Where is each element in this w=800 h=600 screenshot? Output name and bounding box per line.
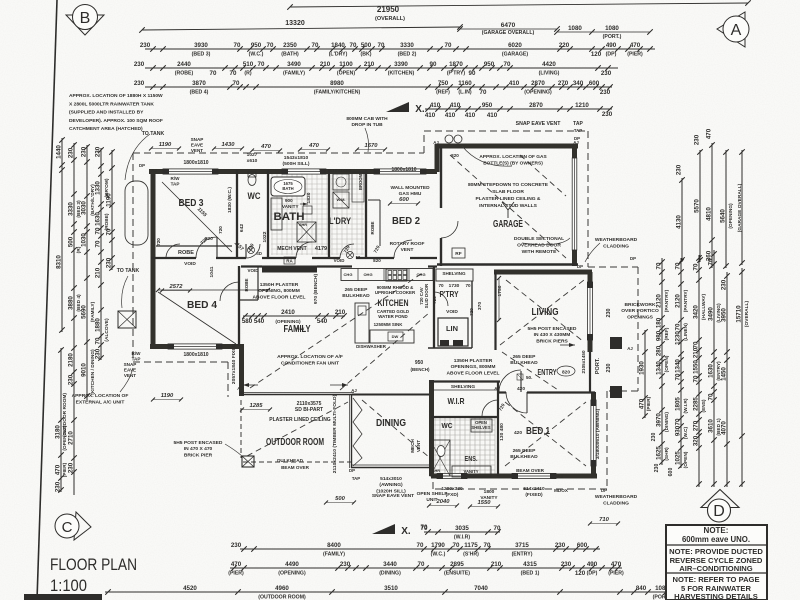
- svg-text:CLADDING: CLADDING: [603, 243, 629, 249]
- svg-text:265 DEEP: 265 DEEP: [513, 354, 537, 360]
- svg-text:INTERNAL STUD WALLS: INTERNAL STUD WALLS: [479, 203, 538, 209]
- door arc pantry: [434, 292, 448, 306]
- svg-text:6020: 6020: [508, 42, 522, 49]
- garage label leader: [502, 202, 514, 218]
- svg-text:410: 410: [445, 112, 456, 119]
- svg-text:13320: 13320: [285, 20, 305, 27]
- ldry trough and wm: [333, 174, 349, 190]
- svg-text:X.: X.: [401, 526, 411, 537]
- svg-text:180: 180: [656, 317, 663, 328]
- svg-text:2105x1450: 2105x1450: [581, 350, 586, 373]
- svg-text:2440: 2440: [177, 61, 191, 68]
- svg-text:4960: 4960: [275, 585, 289, 592]
- svg-text:ROBE: ROBE: [370, 221, 375, 234]
- svg-text:500: 500: [361, 42, 372, 49]
- svg-text:(FXD): (FXD): [446, 492, 459, 498]
- svg-text:230: 230: [140, 42, 151, 49]
- svg-text:CATCHMENT AREA (HATCHED): CATCHMENT AREA (HATCHED): [69, 126, 143, 132]
- svg-text:SHR: SHR: [432, 469, 440, 473]
- svg-text:930: 930: [675, 425, 682, 436]
- svg-text:1790: 1790: [431, 542, 445, 549]
- svg-text:21950: 21950: [377, 5, 400, 14]
- svg-text:1800x1810: 1800x1810: [391, 167, 416, 173]
- svg-text:X.: X.: [415, 104, 425, 115]
- svg-text:720: 720: [432, 296, 437, 304]
- right dim column 5: [726, 272, 728, 487]
- svg-text:AJ: AJ: [431, 474, 437, 479]
- leader curves: [125, 134, 150, 180]
- svg-text:(GARAGE): (GARAGE): [502, 52, 528, 58]
- svg-text:820: 820: [373, 258, 381, 263]
- svg-text:SNAP: SNAP: [191, 137, 204, 142]
- svg-text:70: 70: [484, 542, 491, 549]
- svg-text:WC: WC: [248, 191, 261, 201]
- svg-text:3420: 3420: [693, 305, 700, 319]
- svg-text:70: 70: [417, 542, 424, 549]
- rainwater tank outline: [125, 181, 148, 245]
- svg-text:MECH: MECH: [410, 439, 415, 453]
- svg-text:1027: 1027: [247, 152, 258, 158]
- svg-text:4315: 4315: [523, 561, 537, 568]
- svg-text:70: 70: [438, 283, 444, 288]
- window bed2 1800x1810: [374, 169, 426, 174]
- svg-text:(ENTRY): (ENTRY): [512, 552, 533, 558]
- svg-text:50: 50: [356, 255, 361, 260]
- svg-text:(FAMILY): (FAMILY): [283, 71, 305, 77]
- zigzag timber multifold: [353, 398, 362, 466]
- svg-text:C: C: [62, 519, 73, 536]
- roof line dining: [362, 400, 430, 458]
- svg-text:W.M.: W.M.: [336, 197, 345, 202]
- svg-text:SD BI-PART: SD BI-PART: [295, 407, 323, 413]
- bed3 diagonal: [162, 182, 232, 252]
- svg-text:BATH: BATH: [282, 186, 293, 191]
- svg-text:210: 210: [364, 61, 375, 68]
- svg-text:130 480: 130 480: [499, 423, 505, 441]
- svg-text:230: 230: [55, 481, 62, 492]
- svg-text:3715: 3715: [515, 542, 529, 549]
- wir north wall: [429, 380, 500, 382]
- svg-text:600: 600: [668, 468, 674, 477]
- svg-text:3440: 3440: [383, 561, 397, 568]
- svg-text:(R): (R): [244, 71, 251, 77]
- ldry bench: [352, 172, 364, 202]
- wir/bed1 divider: [497, 381, 499, 476]
- svg-text:4520: 4520: [183, 585, 197, 592]
- svg-text:900: 900: [285, 198, 293, 203]
- door arc front entry: [499, 370, 521, 392]
- bed3 robe wall: [156, 245, 232, 247]
- right dim column 1: [661, 258, 663, 465]
- svg-text:70: 70: [234, 42, 241, 49]
- svg-text:SHELVING: SHELVING: [442, 271, 466, 276]
- svg-text:70: 70: [494, 525, 501, 532]
- kitchen appliance row: [341, 269, 433, 281]
- svg-text:230: 230: [602, 111, 613, 118]
- svg-text:(DP): (DP): [587, 571, 598, 577]
- svg-text:(ENSUITE): (ENSUITE): [444, 571, 470, 577]
- svg-text:1:100: 1:100: [50, 577, 87, 595]
- svg-text:70: 70: [465, 283, 471, 288]
- bath tub: [271, 177, 305, 196]
- svg-text:BRICK PIERS: BRICK PIERS: [536, 338, 568, 344]
- garage south wall: [437, 263, 578, 265]
- svg-text:9010: 9010: [81, 363, 88, 377]
- svg-text:3330: 3330: [68, 202, 75, 216]
- svg-text:320: 320: [693, 435, 700, 446]
- svg-text:(GARAGE OVERALL): (GARAGE OVERALL): [482, 30, 535, 36]
- svg-text:(PORT.): (PORT.): [603, 34, 622, 40]
- svg-text:70: 70: [693, 341, 700, 348]
- right dim upper col 5570: [699, 150, 701, 262]
- svg-text:TAP: TAP: [574, 128, 582, 133]
- svg-text:R/W: R/W: [171, 176, 181, 181]
- svg-text:SHELVES: SHELVES: [471, 425, 490, 430]
- door arc bed3: [196, 237, 217, 258]
- svg-text:UPRIGHT COOKER: UPRIGHT COOKER: [375, 290, 416, 295]
- svg-text:510: 510: [243, 61, 254, 68]
- garage west wall upper: [440, 146, 442, 208]
- svg-text:(W.C.): (W.C.): [431, 552, 446, 558]
- svg-text:642: 642: [239, 224, 245, 232]
- svg-text:DEVELOPER). APPROX. 100 SQM RO: DEVELOPER). APPROX. 100 SQM ROOF: [69, 118, 163, 124]
- svg-text:VOID: VOID: [184, 261, 196, 267]
- svg-text:BRICK PIER: BRICK PIER: [184, 452, 213, 458]
- svg-text:70: 70: [675, 323, 682, 330]
- svg-text:1750: 1750: [497, 285, 503, 296]
- right dim column overall 15710: [741, 268, 743, 487]
- svg-text:CONDITIONER FAN UNIT: CONDITIONER FAN UNIT: [281, 360, 339, 366]
- svg-text:820: 820: [451, 153, 459, 158]
- svg-text:720: 720: [218, 226, 223, 234]
- svg-text:230: 230: [600, 89, 611, 96]
- section marker X top: [386, 102, 409, 112]
- svg-text:500: 500: [68, 236, 75, 247]
- svg-text:710: 710: [599, 517, 609, 523]
- window bed4 1800x1810: [168, 344, 222, 349]
- svg-text:70: 70: [95, 240, 102, 247]
- svg-text:HARVESTING DETAILS: HARVESTING DETAILS: [674, 592, 758, 600]
- svg-text:(W.C.): (W.C.): [249, 52, 264, 58]
- section marker X bottom: [372, 524, 395, 534]
- svg-text:VOID: VOID: [247, 268, 259, 273]
- svg-text:DP: DP: [601, 488, 607, 493]
- svg-text:420: 420: [514, 430, 522, 436]
- svg-text:SLAB FLOOR: SLAB FLOOR: [492, 189, 524, 195]
- lin closet: [438, 318, 468, 346]
- svg-text:(L.IN): (L.IN): [458, 90, 472, 96]
- svg-text:2350: 2350: [283, 42, 297, 49]
- svg-text:1730: 1730: [449, 283, 460, 289]
- svg-text:4810: 4810: [706, 207, 713, 221]
- hall bulkhead black bar: [262, 266, 317, 273]
- svg-text:230: 230: [106, 257, 113, 268]
- roof line living: [500, 280, 584, 345]
- svg-text:OHG: OHG: [416, 272, 425, 277]
- ens fixtures: [452, 466, 491, 477]
- svg-text:3030: 3030: [81, 201, 88, 215]
- svg-text:3930: 3930: [194, 42, 208, 49]
- right dim upper col 4130: [681, 178, 683, 262]
- svg-text:WITH REMOTE: WITH REMOTE: [522, 249, 558, 255]
- family/bed4 divider wall: [238, 266, 240, 346]
- svg-text:ROBE: ROBE: [244, 278, 249, 291]
- svg-text:BATH: BATH: [274, 211, 305, 223]
- right dim upper col 4810: [711, 143, 713, 268]
- svg-text:1830 (W.C.): 1830 (W.C.): [227, 187, 233, 213]
- ldry tiles: [331, 172, 364, 255]
- svg-text:DOUBLE SECTIONAL: DOUBLE SECTIONAL: [514, 236, 564, 242]
- svg-text:(BED 4): (BED 4): [190, 90, 209, 96]
- left dim column 5: [111, 150, 113, 270]
- dining north bulkhead wall: [352, 394, 431, 396]
- svg-text:800MM CAB WITH: 800MM CAB WITH: [346, 116, 388, 122]
- exterior wall top-west: [149, 169, 437, 174]
- svg-text:(W.I.R): (W.I.R): [454, 535, 470, 541]
- svg-text:230: 230: [81, 146, 88, 157]
- svg-text:70: 70: [656, 262, 663, 269]
- svg-text:470: 470: [639, 398, 646, 409]
- family south opening wall: [239, 392, 243, 394]
- dining south awning window: [351, 467, 434, 469]
- svg-text:500: 500: [335, 496, 345, 502]
- svg-text:70: 70: [350, 42, 357, 49]
- living west wall: [494, 272, 496, 350]
- svg-text:(500H SILL): (500H SILL): [283, 161, 310, 167]
- kitchen tall bench: [355, 303, 369, 343]
- svg-text:470: 470: [611, 561, 622, 568]
- svg-text:MDOX: MDOX: [554, 488, 569, 493]
- interior wall ldry|bed2: [365, 170, 367, 258]
- svg-text:1350H PLASTER: 1350H PLASTER: [454, 358, 493, 364]
- svg-text:(W.I.R): (W.I.R): [683, 398, 689, 413]
- svg-text:70: 70: [708, 393, 715, 400]
- dim row 21950 overall: [290, 3, 748, 7]
- svg-text:(PIER): (PIER): [228, 571, 244, 577]
- svg-text:70: 70: [230, 70, 237, 77]
- svg-text:OPENINGS, 800MM: OPENINGS, 800MM: [451, 364, 496, 370]
- svg-text:BOTTLE(S) (BY OWNERS): BOTTLE(S) (BY OWNERS): [483, 160, 543, 166]
- svg-text:70: 70: [312, 42, 319, 49]
- dim row family bottom: [240, 548, 600, 550]
- bed1/entry north wall: [497, 391, 506, 393]
- ens/wc tiles: [433, 418, 495, 474]
- svg-text:8310: 8310: [56, 255, 63, 269]
- svg-text:950: 950: [415, 360, 424, 366]
- svg-text:(BENCH): (BENCH): [411, 367, 430, 372]
- svg-text:120: 120: [575, 570, 586, 577]
- svg-text:(P'TRY): (P'TRY): [447, 71, 466, 77]
- svg-text:540: 540: [317, 318, 328, 325]
- sd symbol hall: [248, 247, 255, 254]
- svg-text:AIR–CONDITIONING: AIR–CONDITIONING: [679, 564, 753, 573]
- notes box: [666, 525, 767, 600]
- open shelves box: [471, 419, 492, 432]
- svg-text:1450: 1450: [721, 367, 728, 381]
- right dim column 3: [698, 255, 700, 487]
- svg-text:AJ: AJ: [433, 140, 439, 145]
- svg-text:TAP: TAP: [171, 182, 180, 187]
- svg-text:5H5 POST ENCASED: 5H5 POST ENCASED: [174, 440, 223, 446]
- interior wall bath|ldry: [328, 170, 330, 258]
- svg-text:340: 340: [573, 80, 584, 87]
- svg-text:1670: 1670: [365, 143, 379, 149]
- left dim column 4: [100, 148, 102, 360]
- svg-text:70: 70: [210, 70, 217, 77]
- svg-text:4490: 4490: [285, 561, 299, 568]
- svg-text:BULKHEAD: BULKHEAD: [510, 360, 538, 366]
- svg-text:270: 270: [693, 420, 700, 431]
- svg-text:1800: 1800: [484, 489, 495, 495]
- door arc ldry: [340, 244, 354, 258]
- svg-text:WC: WC: [442, 421, 454, 430]
- svg-text:OPEN SHELF: OPEN SHELF: [417, 491, 448, 497]
- svg-text:600: 600: [399, 197, 409, 203]
- garage north wall: [437, 144, 578, 149]
- ens/bed1 south wall: [431, 474, 597, 479]
- svg-text:(OPENING): (OPENING): [728, 203, 734, 229]
- marker D (bottom-right): [701, 490, 739, 523]
- svg-text:(BATH): (BATH): [281, 52, 299, 58]
- svg-text:514x3010: 514x3010: [380, 476, 402, 482]
- svg-text:NOTE: PROVIDE DUCTED: NOTE: PROVIDE DUCTED: [669, 547, 763, 556]
- svg-text:TAP: TAP: [132, 357, 141, 362]
- svg-text:ENTRY: ENTRY: [538, 367, 557, 377]
- svg-text:70: 70: [675, 262, 682, 269]
- svg-text:DINING: DINING: [376, 417, 406, 429]
- interior wall bed3|wc: [236, 170, 238, 258]
- svg-text:TO TANK: TO TANK: [142, 131, 165, 137]
- svg-text:PLASTER LINED CEILING &: PLASTER LINED CEILING &: [476, 196, 541, 202]
- svg-text:410: 410: [465, 112, 476, 119]
- svg-text:370: 370: [477, 302, 483, 310]
- bed4 2572 dim: [158, 289, 268, 291]
- garage jog wall: [435, 144, 440, 172]
- svg-text:1080: 1080: [568, 25, 582, 32]
- svg-text:265 DEEP: 265 DEEP: [513, 448, 537, 454]
- exterior wall west: [151, 169, 156, 348]
- outdoor room pier: [242, 456, 254, 467]
- door arc bed1: [506, 392, 527, 413]
- right dim column 2: [680, 258, 682, 468]
- svg-text:WATER POND: WATER POND: [378, 314, 407, 319]
- svg-text:IN 470 X 470: IN 470 X 470: [184, 446, 213, 452]
- sd symbol kitchen hall: [347, 252, 354, 259]
- svg-text:2710: 2710: [68, 431, 75, 445]
- svg-text:230: 230: [68, 147, 75, 158]
- svg-text:514x2410: 514x2410: [523, 486, 545, 492]
- svg-text:230: 230: [606, 309, 612, 318]
- svg-text:(OPENING): (OPENING): [278, 571, 306, 577]
- svg-text:1160: 1160: [458, 80, 472, 87]
- svg-text:ROTARY ROOF: ROTARY ROOF: [390, 241, 425, 247]
- svg-text:EXTERNAL A/C UNIT: EXTERNAL A/C UNIT: [76, 399, 125, 405]
- svg-text:70: 70: [106, 228, 113, 235]
- svg-text:3950: 3950: [721, 308, 728, 322]
- svg-text:(OPENING): (OPENING): [275, 319, 301, 325]
- svg-text:DP: DP: [139, 163, 145, 168]
- svg-text:230: 230: [601, 70, 612, 77]
- svg-text:15710: 15710: [736, 305, 743, 323]
- svg-text:840: 840: [636, 585, 647, 592]
- svg-text:ROBE: ROBE: [178, 250, 194, 256]
- svg-text:BRICKWORK: BRICKWORK: [625, 302, 656, 308]
- svg-text:230: 230: [561, 561, 572, 568]
- window bed1 514x2410: [512, 473, 556, 478]
- svg-text:210: 210: [95, 267, 102, 278]
- svg-text:VOID: VOID: [334, 258, 345, 263]
- door arc garage entry: [441, 221, 458, 238]
- marker C (bottom-left): [55, 512, 91, 540]
- svg-text:(KITCHEN): (KITCHEN): [388, 71, 415, 77]
- svg-text:(LINEN): (LINEN): [683, 323, 689, 341]
- svg-text:BULKHEAD: BULKHEAD: [510, 454, 538, 460]
- svg-text:3880: 3880: [68, 296, 75, 310]
- svg-text:5H5 POST ENCASED: 5H5 POST ENCASED: [528, 326, 577, 332]
- svg-text:(OPEN): (OPEN): [683, 451, 689, 468]
- left dim column 3: [86, 145, 88, 400]
- outdoor room bulkhead dashed: [240, 400, 242, 458]
- svg-text:OHG: OHG: [363, 272, 372, 277]
- svg-text:4130: 4130: [676, 215, 683, 229]
- svg-text:1190: 1190: [106, 193, 113, 207]
- svg-text:EAVE: EAVE: [191, 143, 203, 148]
- bed4 diagonal: [158, 292, 236, 344]
- svg-text:230: 230: [654, 464, 660, 473]
- door arc wir: [482, 400, 498, 416]
- svg-text:70: 70: [267, 42, 274, 49]
- svg-text:230: 230: [68, 374, 75, 385]
- svg-text:8400: 8400: [327, 542, 341, 549]
- svg-text:(S'HR): (S'HR): [463, 552, 479, 558]
- right dim upper col garage overall: [741, 150, 743, 265]
- dim row ensuite/bed1 bottom: [230, 567, 622, 569]
- svg-text:APPROX. LOCATION OF 1880H X 11: APPROX. LOCATION OF 1880H X 1150W: [69, 93, 163, 99]
- svg-text:WEATHERBOARD: WEATHERBOARD: [595, 237, 638, 243]
- roof line family: [250, 272, 424, 388]
- interior wall wc|bath: [267, 170, 269, 258]
- svg-text:TO TANK: TO TANK: [117, 268, 140, 274]
- svg-text:1230: 1230: [675, 331, 682, 345]
- svg-text:LIN: LIN: [446, 324, 458, 333]
- svg-text:(L'DRY): (L'DRY): [329, 52, 348, 58]
- svg-text:4420: 4420: [542, 61, 556, 68]
- svg-text:D: D: [713, 503, 725, 520]
- left dim column 1: [61, 138, 63, 332]
- svg-text:70: 70: [445, 42, 452, 49]
- svg-text:1250MM SINK: 1250MM SINK: [374, 322, 404, 327]
- marker A (top-right): [717, 12, 749, 47]
- svg-text:3035: 3035: [455, 525, 469, 532]
- svg-text:(ENS): (ENS): [701, 399, 707, 412]
- svg-text:(DP): (DP): [606, 52, 617, 58]
- svg-text:SD: SD: [256, 251, 262, 256]
- svg-text:A: A: [731, 22, 742, 39]
- svg-text:2110x2410 (TIMBER MULTI-FOLD): 2110x2410 (TIMBER MULTI-FOLD): [332, 394, 338, 473]
- svg-text:RA: RA: [286, 259, 293, 264]
- svg-text:600: 600: [577, 542, 588, 549]
- svg-text:470: 470: [630, 42, 641, 49]
- exterior wall bed4 south: [150, 344, 243, 349]
- svg-text:90: 90: [469, 70, 476, 77]
- svg-text:2285: 2285: [693, 397, 700, 411]
- svg-text:820: 820: [205, 236, 213, 241]
- wir west wall: [429, 380, 434, 476]
- hall north wall (bed3 row south): [151, 257, 196, 259]
- svg-text:BED 4: BED 4: [187, 299, 217, 311]
- svg-text:410: 410: [430, 102, 441, 109]
- svg-text:ABOVE FLOOR LEVEL: ABOVE FLOOR LEVEL: [253, 294, 306, 300]
